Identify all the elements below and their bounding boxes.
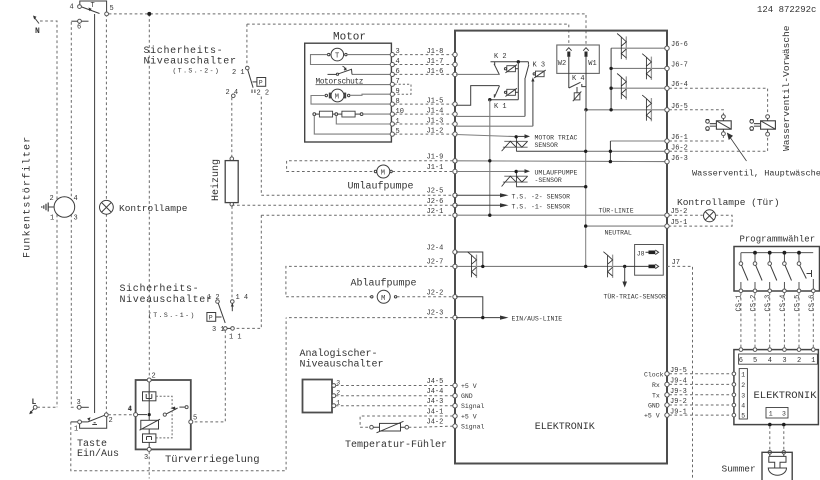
svg-text:2: 2 <box>797 357 801 365</box>
svg-text:5: 5 <box>110 5 114 13</box>
svg-text:MOTOR TRIAC: MOTOR TRIAC <box>535 135 578 142</box>
svg-text:6: 6 <box>739 357 743 365</box>
svg-text:TÜR-TRIAC-SENSOR: TÜR-TRIAC-SENSOR <box>604 293 667 301</box>
svg-text:CS-6: CS-6 <box>808 295 816 312</box>
svg-text:Analogischer-: Analogischer- <box>300 348 378 360</box>
svg-text:J9-5: J9-5 <box>670 367 687 375</box>
svg-text:J6-6: J6-6 <box>671 41 688 49</box>
svg-text:Motor: Motor <box>333 32 366 44</box>
svg-text:J1-2: J1-2 <box>427 128 444 136</box>
svg-text:Niveauschalter: Niveauschalter <box>120 294 213 306</box>
svg-text:1: 1 <box>74 426 78 434</box>
svg-text:M: M <box>381 170 385 178</box>
svg-text:TÜR-LINIE: TÜR-LINIE <box>599 207 634 215</box>
svg-text:J7: J7 <box>672 259 680 267</box>
svg-text:J8: J8 <box>637 250 645 257</box>
svg-text:3 1: 3 1 <box>212 326 225 334</box>
svg-text:P: P <box>259 80 263 87</box>
svg-text:1: 1 <box>50 215 54 223</box>
svg-text:J2-2: J2-2 <box>427 290 444 298</box>
svg-text:J5-2: J5-2 <box>671 208 688 216</box>
svg-text:W1: W1 <box>588 60 596 68</box>
svg-text:ELEKTRONIK: ELEKTRONIK <box>535 422 595 433</box>
svg-text:1 1: 1 1 <box>229 334 242 342</box>
svg-text:J9-3: J9-3 <box>670 388 687 396</box>
svg-text:1: 1 <box>811 357 815 365</box>
svg-text:K 4: K 4 <box>572 75 585 83</box>
svg-text:J4-3: J4-3 <box>427 398 444 406</box>
svg-text:CS-2: CS-2 <box>750 295 758 312</box>
svg-text:Kontrollampe: Kontrollampe <box>119 203 188 214</box>
svg-text:NEUTRAL: NEUTRAL <box>605 230 632 237</box>
svg-text:J2-3: J2-3 <box>427 310 444 318</box>
svg-text:J9-2: J9-2 <box>670 398 687 406</box>
svg-text:5: 5 <box>193 415 197 423</box>
svg-text:(T.S.-1-): (T.S.-1-) <box>148 312 196 319</box>
svg-text:J1-8: J1-8 <box>427 48 444 56</box>
svg-text:J4-4: J4-4 <box>427 388 444 396</box>
svg-text:Temperatur-Fühler: Temperatur-Fühler <box>345 439 447 451</box>
svg-text:M: M <box>381 295 385 303</box>
svg-text:Rx: Rx <box>652 382 660 389</box>
svg-text:GND: GND <box>461 393 473 400</box>
svg-text:CS-5: CS-5 <box>794 295 802 312</box>
svg-text:4: 4 <box>741 403 745 410</box>
svg-text:Wasserventil-Vorwäsche: Wasserventil-Vorwäsche <box>781 25 792 151</box>
svg-text:T: T <box>335 53 339 61</box>
svg-text:2: 2 <box>741 382 745 389</box>
svg-text:Signal: Signal <box>461 424 485 431</box>
svg-text:5: 5 <box>396 128 400 136</box>
svg-text:P: P <box>209 315 213 322</box>
svg-text:J1-7: J1-7 <box>427 58 444 66</box>
svg-text:J4-5: J4-5 <box>427 378 444 386</box>
svg-text:T.S. -1- SENSOR: T.S. -1- SENSOR <box>512 203 571 210</box>
svg-text:Signal: Signal <box>461 403 485 410</box>
svg-text:1: 1 <box>741 372 745 379</box>
svg-text:J2-7: J2-7 <box>427 259 444 267</box>
svg-text:J1-4: J1-4 <box>427 108 444 116</box>
svg-text:M: M <box>335 94 339 102</box>
svg-text:Umlaufpumpe: Umlaufpumpe <box>348 181 414 193</box>
svg-text:10: 10 <box>396 108 404 116</box>
svg-text:CS-3: CS-3 <box>765 295 773 312</box>
svg-text:1: 1 <box>769 411 773 418</box>
svg-text:2: 2 <box>109 417 113 425</box>
svg-text:Ein/Aus: Ein/Aus <box>77 448 119 460</box>
svg-text:EIN/AUS-LINIE: EIN/AUS-LINIE <box>512 316 563 323</box>
svg-text:Funkentstörfilter: Funkentstörfilter <box>22 136 34 258</box>
svg-text:J4-2: J4-2 <box>427 418 444 426</box>
svg-text:Summer: Summer <box>722 464 756 475</box>
svg-text:J4-1: J4-1 <box>427 409 444 417</box>
svg-text:GND: GND <box>648 403 660 410</box>
svg-text:+5 V: +5 V <box>644 413 660 420</box>
svg-text:T.S. -2- SENSOR: T.S. -2- SENSOR <box>512 193 571 200</box>
svg-text:Ablaufpumpe: Ablaufpumpe <box>351 278 417 290</box>
svg-text:Clock: Clock <box>644 371 664 378</box>
svg-text:UMLAUFPUMPE: UMLAUFPUMPE <box>535 170 578 177</box>
svg-text:J1-6: J1-6 <box>427 68 444 76</box>
svg-text:Sicherheits-: Sicherheits- <box>144 45 224 57</box>
svg-text:J1-3: J1-3 <box>427 118 444 126</box>
svg-text:J9-1: J9-1 <box>670 408 687 416</box>
svg-text:+5 V: +5 V <box>461 414 477 421</box>
svg-text:124 872292c: 124 872292c <box>757 5 816 15</box>
svg-text:J9-4: J9-4 <box>670 378 687 386</box>
svg-text:SENSOR: SENSOR <box>535 142 559 149</box>
svg-text:-SENSOR: -SENSOR <box>535 177 562 184</box>
svg-text:J2-4: J2-4 <box>427 245 444 253</box>
svg-text:CS-4: CS-4 <box>779 295 787 312</box>
svg-text:3: 3 <box>741 392 745 399</box>
svg-text:J2-6: J2-6 <box>427 198 444 206</box>
svg-text:J1-1: J1-1 <box>427 164 444 172</box>
svg-text:4: 4 <box>74 195 78 203</box>
svg-text:3: 3 <box>144 454 148 462</box>
svg-text:8: 8 <box>396 98 400 106</box>
svg-text:ELEKTRONIK: ELEKTRONIK <box>754 390 818 402</box>
svg-text:K 1: K 1 <box>494 103 507 111</box>
svg-text:2 1: 2 1 <box>232 69 245 77</box>
svg-text:(T.S.-2-): (T.S.-2-) <box>173 68 221 75</box>
svg-text:W2: W2 <box>558 60 566 68</box>
svg-text:3: 3 <box>74 215 78 223</box>
svg-text:4: 4 <box>128 406 132 414</box>
svg-text:2 2: 2 2 <box>257 90 270 98</box>
svg-text:CS-1: CS-1 <box>736 295 744 312</box>
svg-text:Tx: Tx <box>652 392 660 399</box>
svg-text:Niveauschalter: Niveauschalter <box>144 56 237 68</box>
svg-text:3: 3 <box>782 357 786 365</box>
svg-text:5: 5 <box>741 413 745 420</box>
svg-text:Sicherheits-: Sicherheits- <box>120 283 200 295</box>
svg-text:Wasserventil, Hauptwäsche: Wasserventil, Hauptwäsche <box>692 169 820 179</box>
svg-text:J2-5: J2-5 <box>427 188 444 196</box>
svg-text:K 2: K 2 <box>494 53 507 61</box>
svg-text:6: 6 <box>77 24 81 32</box>
svg-text:N: N <box>35 27 40 36</box>
svg-text:1 4: 1 4 <box>236 294 249 302</box>
svg-text:Kontrollampe (Tür): Kontrollampe (Tür) <box>677 197 780 208</box>
svg-text:4: 4 <box>768 357 772 365</box>
svg-text:J1-5: J1-5 <box>427 98 444 106</box>
svg-text:3: 3 <box>782 411 786 418</box>
svg-text:Heizung: Heizung <box>210 159 222 201</box>
svg-text:Motorschutz: Motorschutz <box>316 79 364 87</box>
svg-text:1: 1 <box>396 118 400 126</box>
svg-text:J6-7: J6-7 <box>671 61 688 69</box>
svg-text:J2-1: J2-1 <box>427 208 444 216</box>
svg-text:9: 9 <box>396 88 400 96</box>
svg-text:2: 2 <box>152 373 156 381</box>
svg-text:K 3: K 3 <box>533 62 546 70</box>
svg-text:Programmwähler: Programmwähler <box>740 235 816 245</box>
svg-text:+5 V: +5 V <box>461 383 477 390</box>
svg-text:5: 5 <box>753 357 757 365</box>
svg-text:J6-3: J6-3 <box>671 155 688 163</box>
svg-text:2: 2 <box>50 195 54 203</box>
svg-text:Niveauschalter: Niveauschalter <box>300 359 384 371</box>
svg-text:4: 4 <box>70 4 74 12</box>
svg-text:Türverriegelung: Türverriegelung <box>165 454 260 466</box>
